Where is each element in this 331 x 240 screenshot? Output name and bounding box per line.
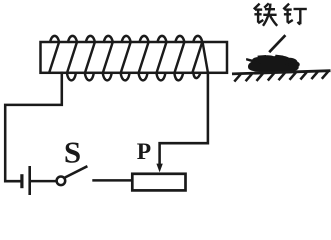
钉 right part 丁: [294, 8, 307, 10]
coil winding (turns of the electromagnet): [49, 36, 202, 80]
battery negative plate (short): [20, 174, 23, 188]
铁 right part 失: [264, 3, 269, 7]
钉 metal radical: [283, 4, 289, 10]
battery positive plate (long): [28, 166, 31, 196]
coil right lead (slanted wire leaving last turn): [203, 42, 208, 72]
switch S lever (open): [65, 166, 88, 177]
pointer line from label to nails: [269, 35, 285, 52]
rheostat slider arrow head: [156, 164, 162, 173]
surface hatching marks: [234, 71, 328, 81]
wire: battery to switch: [31, 180, 57, 183]
table surface line: [232, 71, 331, 74]
iron nails pile: [246, 55, 300, 72]
svg-text:S: S: [64, 134, 81, 169]
rheostat P body: [132, 174, 185, 191]
铁 metal radical: [254, 4, 260, 10]
wire: coil left lead down, left and down to battery: [5, 72, 62, 182]
wire: coil right lead down, left, and down to rheostat slider: [160, 72, 208, 165]
electromagnet core (coil body rectangle): [41, 42, 228, 73]
svg-text:P: P: [137, 139, 151, 165]
label 铁钉 (iron nails), drawn as strokes: [254, 3, 307, 25]
wire: switch to rheostat: [92, 179, 131, 182]
switch S pivot circle: [57, 177, 66, 186]
